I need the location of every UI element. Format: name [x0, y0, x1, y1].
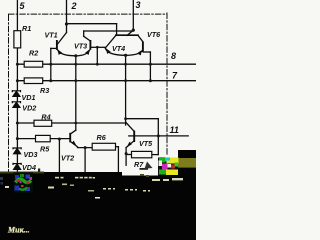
svg-text:VT2: VT2: [61, 154, 74, 163]
svg-text:VT3: VT3: [74, 42, 87, 51]
svg-text:8: 8: [171, 51, 176, 61]
svg-text:VD1: VD1: [22, 93, 36, 102]
svg-text:11: 11: [170, 125, 179, 135]
svg-text:VD3: VD3: [24, 150, 38, 159]
svg-text:R6: R6: [97, 133, 107, 142]
svg-text:R1: R1: [22, 24, 31, 33]
svg-text:VT6: VT6: [147, 30, 161, 39]
svg-text:VD4: VD4: [22, 163, 36, 172]
svg-text:VT1: VT1: [45, 31, 58, 40]
svg-text:VT5: VT5: [139, 139, 153, 148]
svg-text:3: 3: [136, 0, 141, 10]
svg-text:VD2: VD2: [22, 104, 36, 113]
svg-text:R4: R4: [41, 113, 50, 122]
svg-text:R5: R5: [40, 145, 50, 154]
svg-text:R2: R2: [29, 49, 38, 58]
svg-text:2: 2: [71, 1, 77, 11]
svg-text:R7: R7: [134, 160, 144, 169]
svg-text:Мик...: Мик...: [7, 226, 30, 235]
svg-text:VT4: VT4: [112, 44, 125, 53]
svg-text:R3: R3: [40, 86, 49, 95]
